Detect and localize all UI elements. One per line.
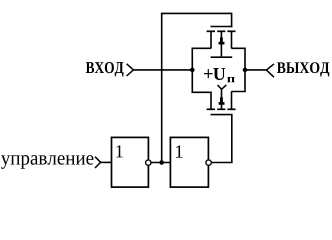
wire: right rail (выход to both transistors) xyxy=(231,48,245,91)
wire: drop from top rail to VT1 gate xyxy=(231,13,233,28)
transistor VT2 channel segment (source side) xyxy=(207,108,215,110)
terminal: выход output chevron xyxy=(266,64,274,77)
terminal: управление input chevron xyxy=(95,157,101,168)
inverter DD1.1 output bubble xyxy=(146,160,151,165)
transistor VT2 channel segment (substrate) xyxy=(217,108,225,110)
terminal: вход input chevron xyxy=(127,64,134,76)
wire: DD1.1 output to DD1.2 input xyxy=(152,162,171,164)
transistor VT1 channel segment (drain side) xyxy=(227,30,235,32)
value label: +Uп supply (U) xyxy=(213,68,225,80)
transistor VT2 channel segment (drain side) xyxy=(227,108,235,110)
value label: +Uп supply (plus sign) xyxy=(204,69,213,78)
transistor VT1 channel segment (source side) xyxy=(207,30,215,32)
wire: second inverter output to VT2 gate drop xyxy=(212,162,233,164)
transistor VT2 drain lead xyxy=(231,92,233,110)
wire: управление terminal to first inverter xyxy=(101,161,112,163)
inverter DD1.2 box xyxy=(170,137,208,187)
node label: вход xyxy=(86,62,124,77)
junction: вход node dot on left rail xyxy=(190,68,195,73)
transistor VT1 channel segment (substrate) xyxy=(217,30,225,32)
wire: VT2 gate down to second inverter output xyxy=(231,114,233,163)
transistor VT1 substrate lead xyxy=(220,31,222,56)
value label: logic 1 of DD1.1 xyxy=(116,145,123,157)
wire: top rail to VT1 gate xyxy=(161,12,232,14)
value label: logic 1 of DD1.2 xyxy=(176,145,183,157)
transistor VT1 source lead xyxy=(210,31,212,48)
wire: control line from inverter junction up to top rail xyxy=(161,13,163,162)
value label: +Uп supply (п subscript) xyxy=(227,77,235,82)
transistor VT1 (top MOSFET) gate electrode xyxy=(211,26,233,28)
node label: выход xyxy=(277,62,329,76)
wire: left rail (вход to both transistors) xyxy=(192,48,211,92)
inverter DD1.2 output bubble xyxy=(206,160,211,165)
wire: вход to left rail xyxy=(133,69,192,71)
transistor VT2 gate electrode xyxy=(211,114,233,116)
terminal: VT2 substrate supply chevron xyxy=(218,85,227,89)
transistor VT1 drain lead xyxy=(231,31,233,48)
wire: right rail to выход terminal xyxy=(245,69,266,71)
inverter DD1.1 box xyxy=(112,137,149,187)
junction: dot between inverters xyxy=(159,160,164,165)
node label: управление xyxy=(1,155,93,169)
transistor VT1 substrate arrow xyxy=(219,36,225,45)
transistor VT2 (bottom MOSFET) substrate lead xyxy=(221,89,223,109)
power: +Uп supply bar for VT1 substrate xyxy=(211,56,233,58)
transistor VT2 source lead xyxy=(210,92,212,110)
transistor VT2 substrate arrow xyxy=(219,96,225,105)
junction: выход node dot on right rail xyxy=(243,68,248,73)
